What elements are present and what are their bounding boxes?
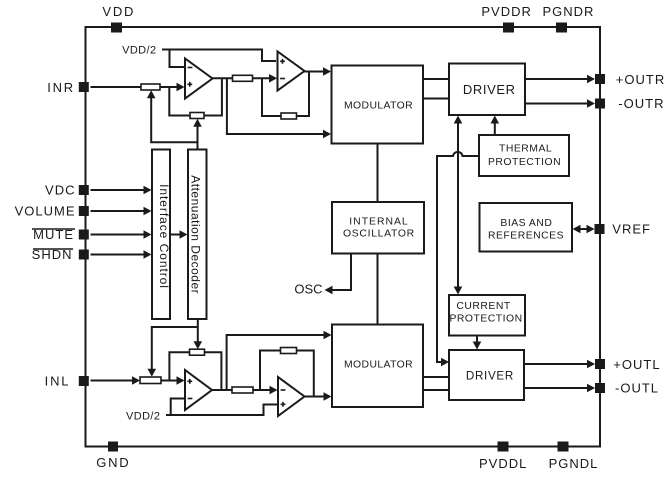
wire U3 output to R7 to U4 minus xyxy=(212,389,271,391)
wire branch to input R5 xyxy=(152,327,198,371)
svg-text:INR: INR xyxy=(47,80,75,95)
wire attenuation decoder top to feedback R2 xyxy=(197,125,199,150)
pin -OUTL xyxy=(595,381,659,396)
resistor R4 (U2 feedback) xyxy=(281,113,297,119)
svg-text:INL: INL xyxy=(45,374,71,389)
svg-text:CURRENT: CURRENT xyxy=(456,301,510,312)
op-amp U2 xyxy=(278,52,305,91)
svg-text:VDD/2: VDD/2 xyxy=(126,410,160,422)
wire bias references to VREF (double headed) xyxy=(578,228,589,230)
wire U1 feedback loop xyxy=(169,78,222,115)
svg-text:INTERNAL: INTERNAL xyxy=(349,217,408,228)
svg-text:+OUTL: +OUTL xyxy=(613,357,660,372)
wire driver R to +OUTR xyxy=(525,78,589,80)
wire INR to R1 xyxy=(91,86,142,88)
wire U2 feedback loop xyxy=(262,72,309,117)
wire VDD/2 rail (bottom) xyxy=(166,405,277,416)
resistor R8 (U4 feedback) xyxy=(281,348,297,354)
pin VDC xyxy=(45,183,89,198)
wire VDD/2 rail (top) xyxy=(162,50,276,62)
wire U3 feedback loop xyxy=(169,352,221,390)
svg-text:+OUTR: +OUTR xyxy=(616,72,665,87)
pin +OUTL xyxy=(595,357,661,372)
wire modulator L to driver L (two lines) xyxy=(423,377,449,390)
box BIAS AND REFERENCES xyxy=(480,203,573,252)
box THERMAL PROTECTION xyxy=(479,135,569,176)
wire U2 output to modulator upper input xyxy=(305,71,326,73)
svg-text:PROTECTION: PROTECTION xyxy=(488,157,561,168)
svg-text:DRIVER: DRIVER xyxy=(466,370,514,383)
pin SHDN (overline) xyxy=(32,247,89,262)
svg-text:Attenuation Decoder: Attenuation Decoder xyxy=(189,175,203,294)
svg-text:OSC: OSC xyxy=(294,282,322,297)
wire driver R to -OUTR xyxy=(525,103,589,105)
svg-text:PROTECTION: PROTECTION xyxy=(450,314,523,325)
svg-text:REFERENCES: REFERENCES xyxy=(488,231,564,242)
op-amp U1 xyxy=(185,59,213,99)
svg-text:OSCILLATOR: OSCILLATOR xyxy=(343,229,415,240)
svg-text:MODULATOR: MODULATOR xyxy=(344,360,413,371)
svg-text:PVDDR: PVDDR xyxy=(481,4,532,19)
svg-text:BIAS AND: BIAS AND xyxy=(500,218,552,229)
box DRIVER (left channel) xyxy=(449,350,524,400)
svg-text:PVDDL: PVDDL xyxy=(479,456,527,471)
wire thermal protection to driver R xyxy=(494,122,496,135)
wire U4 feedback loop xyxy=(260,351,314,397)
resistor R7 (U3 to U4) xyxy=(232,387,253,393)
pin PVDDR xyxy=(481,4,532,33)
resistor R1 (INR input) xyxy=(141,84,160,90)
wire modulator R to internal oscillator xyxy=(377,144,379,203)
pin GND xyxy=(96,442,130,471)
svg-text:Interface Control: Interface Control xyxy=(157,184,171,289)
wire INL to R5 (arrow) xyxy=(91,380,135,382)
resistor R3 (U1 to U2) xyxy=(233,75,253,81)
wire U4 output to modulator lower input xyxy=(305,396,326,398)
wire R1 to U1 plus xyxy=(160,86,178,88)
pin VREF xyxy=(595,222,651,237)
wire interface control to attenuation decoder xyxy=(170,234,181,236)
wire driver L to -OUTL xyxy=(524,387,589,389)
wire driver L to +OUTL xyxy=(524,363,589,365)
wire VDD/2 to op-amp U3 minus xyxy=(171,399,184,416)
wire branch U1 output to modulator lower input xyxy=(227,78,325,134)
wire VDC to interface control xyxy=(91,189,146,191)
wire MUTE to interface control xyxy=(91,234,146,236)
box Attenuation Decoder xyxy=(188,150,207,320)
svg-text:-OUTR: -OUTR xyxy=(618,96,664,111)
pin +OUTR xyxy=(595,72,665,87)
box MODULATOR (right channel) xyxy=(332,66,424,144)
resistor R5 (INL input) xyxy=(140,377,161,384)
wire VDD/2 to op-amp U1 minus xyxy=(170,50,185,68)
op-amp U4 xyxy=(278,377,305,416)
wire branch U3 output to modulator upper input xyxy=(227,335,326,390)
op-amp U3 xyxy=(185,370,212,410)
wire current protection to driver L xyxy=(476,336,478,345)
pin PGNDR xyxy=(543,4,595,33)
resistor R6 (U3 feedback) xyxy=(190,349,205,355)
wire modulator R to driver R (two lines) xyxy=(423,79,449,99)
svg-text:GND: GND xyxy=(96,455,130,470)
svg-text:PGNDL: PGNDL xyxy=(549,456,599,471)
svg-text:THERMAL: THERMAL xyxy=(499,144,552,155)
wire VOLUME to interface control xyxy=(91,210,146,212)
wire attenuation decoder bottom to feedback R6 xyxy=(197,319,199,344)
chip border xyxy=(86,27,601,447)
box DRIVER (right channel) xyxy=(449,64,525,116)
svg-text:VDD: VDD xyxy=(102,4,135,19)
wire OSC output xyxy=(332,254,351,291)
svg-text:PGNDR: PGNDR xyxy=(543,4,595,19)
svg-text:MODULATOR: MODULATOR xyxy=(344,100,413,111)
wire driver R to current protection (double arrow) xyxy=(457,122,459,288)
box MODULATOR (left channel) xyxy=(332,325,423,408)
wire U1 output to R2 to U2 minus xyxy=(212,77,271,79)
pin INL xyxy=(45,374,89,389)
svg-text:VOLUME: VOLUME xyxy=(15,204,76,219)
pin VDD xyxy=(102,4,135,33)
pin MUTE (overline) xyxy=(32,227,89,242)
resistor R2 (U1 feedback) xyxy=(190,113,204,119)
svg-text:DRIVER: DRIVER xyxy=(463,82,516,97)
box INTERNAL OSCILLATOR xyxy=(332,202,424,254)
wire SHDN to interface control xyxy=(91,254,146,256)
wire branch to input R1 xyxy=(151,98,197,142)
pin PGNDL xyxy=(549,442,599,472)
wire thermal protection to driver L (with hop) xyxy=(437,152,479,362)
svg-text:VREF: VREF xyxy=(612,222,651,237)
wire internal oscillator to modulator L xyxy=(377,254,379,325)
box Interface Control xyxy=(152,150,171,320)
svg-text:VDC: VDC xyxy=(45,183,75,198)
wire R5 to U3 plus xyxy=(161,380,178,382)
pin -OUTR xyxy=(595,96,664,111)
pin INR xyxy=(47,80,89,95)
pin PVDDL xyxy=(479,442,527,472)
box CURRENT PROTECTION xyxy=(449,295,525,336)
pin VOLUME xyxy=(15,204,89,219)
svg-text:-OUTL: -OUTL xyxy=(615,381,659,396)
svg-text:VDD/2: VDD/2 xyxy=(122,44,156,56)
